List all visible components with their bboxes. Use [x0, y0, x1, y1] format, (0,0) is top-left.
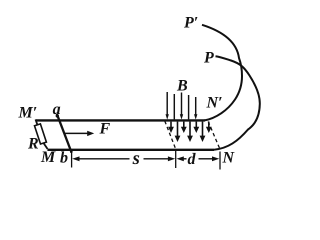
curve from top rail to P' (inner hairpin): [202, 25, 242, 121]
force arrow F head: [87, 131, 94, 136]
B arrow short 1 between rails: [170, 122, 172, 129]
dashed field boundary right N' to N: [208, 122, 220, 149]
s dimension shaft left: [78, 158, 130, 160]
svg-text:N: N: [222, 150, 236, 167]
B field line 2 above rail: [173, 94, 175, 119]
top rail M'N': [36, 119, 206, 121]
d dimension arrow left head: [177, 156, 184, 161]
s dimension extension line at b: [71, 153, 73, 168]
svg-text:M′: M′: [18, 105, 38, 122]
bottom rail MN: [47, 149, 214, 151]
s dimension shaft right: [144, 158, 170, 160]
s dimension arrow right head: [168, 156, 175, 161]
svg-text:a: a: [53, 101, 61, 118]
B field line 1 above rail: [166, 92, 168, 116]
B arrow short 3 between rails: [195, 122, 197, 129]
d dimension shaft right: [199, 158, 213, 160]
curve from bottom rail to P (outer hairpin): [214, 56, 260, 150]
svg-text:P: P: [203, 50, 214, 67]
d dimension shaft left: [183, 158, 187, 160]
junction dot a: [56, 114, 59, 117]
svg-text:b: b: [60, 150, 68, 167]
svg-text:F: F: [99, 121, 111, 138]
s dimension middle extension line: [175, 151, 177, 169]
resistor R body: [35, 124, 47, 144]
svg-text:R: R: [27, 136, 39, 153]
B field line 3 above rail: [181, 93, 183, 116]
d dimension extension line at N: [219, 152, 221, 170]
s dimension arrow left head: [72, 156, 79, 161]
B arrow long 3 between rails: [202, 122, 204, 137]
svg-text:d: d: [188, 151, 197, 168]
B arrow short 4 between rails: [208, 122, 210, 129]
junction dot b: [70, 150, 73, 153]
force arrow F shaft: [65, 132, 89, 134]
dashed field boundary left: [165, 121, 176, 149]
svg-text:P′: P′: [183, 15, 198, 32]
sliding bar ab: [57, 114, 72, 153]
d dimension arrow right head: [212, 156, 219, 161]
svg-text:N′: N′: [206, 95, 223, 112]
svg-text:B: B: [176, 78, 188, 95]
svg-text:s: s: [132, 149, 140, 169]
left edge wire upper segment (M' corner to resistor): [36, 120, 38, 126]
B field line 5 above rail: [195, 97, 197, 116]
left edge wire lower segment (resistor to M corner): [43, 143, 47, 149]
B arrow short 2 between rails: [183, 122, 185, 129]
B field line 4 above rail: [188, 95, 190, 119]
B arrow long 2 between rails: [189, 122, 191, 137]
svg-text:M: M: [40, 149, 56, 166]
B arrow long 1 between rails: [177, 122, 179, 137]
